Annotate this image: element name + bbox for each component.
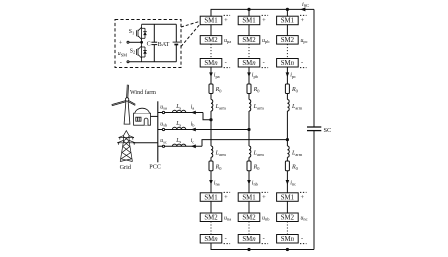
wire: SMn to R0 upper arm phase C <box>286 67 288 84</box>
wire: phase C AC line from PCC bus <box>158 140 288 147</box>
label + (upper arm voltage ref) phase C <box>301 17 305 24</box>
inductor L_arm lower arm phase C <box>287 146 289 157</box>
label - (upper arm voltage ref) phase A <box>225 60 227 67</box>
svg-text:Larm: Larm <box>253 104 265 110</box>
wire: R0 to L_arm upper arm phase A <box>210 94 212 100</box>
svg-text:SC: SC <box>324 127 332 134</box>
svg-text:una: una <box>224 215 231 221</box>
svg-text:-: - <box>225 60 227 67</box>
svg-text:+: + <box>301 17 305 24</box>
submodule SM1 upper arm phase A <box>200 16 222 25</box>
wire: SM internal top rail <box>142 23 177 25</box>
svg-text:Grid: Grid <box>120 164 132 171</box>
capacitor C in SM <box>151 42 157 44</box>
dotted tick at SMn bottom, phase C upper arm <box>300 67 307 69</box>
label + (upper arm voltage ref) phase B <box>262 17 266 24</box>
svg-text:usa: usa <box>160 104 167 110</box>
wire: + terminal to half-bridge midpoint <box>129 41 142 43</box>
svg-text:ipb: ipb <box>252 73 259 79</box>
label u_sb <box>160 121 168 127</box>
svg-text:Larm: Larm <box>291 151 303 157</box>
svg-text:R0: R0 <box>215 87 223 93</box>
label PCC <box>149 164 161 171</box>
label L_arm upper arm phase B <box>253 104 265 110</box>
label u_sa <box>160 104 167 110</box>
svg-text:-: - <box>301 236 303 243</box>
svg-text:SM2: SM2 <box>204 37 218 44</box>
label i_na <box>214 180 220 186</box>
submodule SMn upper arm phase C <box>277 59 299 68</box>
node: phase A AC connection point <box>209 118 212 121</box>
label R_0 upper arm phase A <box>215 87 223 93</box>
submodule SM2 upper arm phase B <box>238 36 260 45</box>
svg-text:SM1: SM1 <box>281 18 294 25</box>
wind turbine (wind farm icon) <box>112 85 136 125</box>
svg-text:-: - <box>225 236 227 243</box>
svg-text:R0: R0 <box>215 165 223 171</box>
svg-text:SMn: SMn <box>242 60 256 67</box>
dotted tick at SM1 top, phase C lower arm <box>300 191 307 193</box>
wire: upper arm to phase B AC node <box>248 111 250 146</box>
wire: top DC rail <box>211 9 314 16</box>
submodule SM1 lower arm phase A <box>200 193 222 202</box>
svg-text:upa: upa <box>224 38 231 44</box>
label i_c <box>191 138 195 144</box>
inductor L_arm upper arm phase A <box>211 100 213 112</box>
label u_pc arm voltage <box>301 38 308 44</box>
label - (upper arm voltage ref) phase B <box>263 60 265 67</box>
label Wind farm <box>130 89 156 96</box>
svg-text:inc: inc <box>290 180 296 186</box>
inductor L_arm lower arm phase A <box>211 146 213 157</box>
dashed box: submodule detail <box>115 20 181 68</box>
wire: bottom DC rail <box>211 243 314 249</box>
transistor S1 (upper IGBT with diode) <box>137 24 147 42</box>
dotted tick at SM1 top, phase A upper arm <box>224 14 231 16</box>
wire: grid to PCC bus <box>133 142 158 144</box>
svg-text:S2: S2 <box>130 48 135 54</box>
submodule SM2 upper arm phase C <box>277 36 299 45</box>
label L_arm upper arm phase A <box>215 104 227 110</box>
svg-text:usb: usb <box>160 121 168 127</box>
wire: phase A AC line from PCC bus <box>158 113 211 120</box>
current arrow i_b phase B <box>191 128 196 132</box>
label + (upper arm voltage ref) phase A <box>224 17 228 24</box>
battery BAT in SM <box>173 42 180 44</box>
terminal circle on phase B line at PCC <box>162 128 164 130</box>
label L_s phase B <box>175 121 181 127</box>
label i_a <box>191 104 195 110</box>
label + (lower arm voltage ref) phase B <box>262 194 266 201</box>
label R_0 lower arm phase B <box>253 165 261 171</box>
dashed leader line from box to SM1 (upper) <box>181 22 199 28</box>
current arrow i_nc (lower arm current) <box>286 180 290 185</box>
wire: R0 to L_arm upper arm phase C <box>286 94 288 100</box>
svg-text:+: + <box>224 194 228 201</box>
node: bottom rail phase-C leg junction <box>286 248 289 251</box>
current arrow i_na (lower arm current) <box>209 180 213 185</box>
svg-text:upb: upb <box>262 38 270 44</box>
wire: R0 to SM1 lower arm phase B <box>248 171 250 193</box>
label i_b <box>191 121 196 127</box>
wire: SM internal bottom rail (- terminal) <box>129 61 176 63</box>
svg-text:SM2: SM2 <box>204 215 218 222</box>
svg-text:unc: unc <box>301 215 308 221</box>
resistor R0 upper arm phase B <box>247 84 251 94</box>
node: top rail phase-B leg junction <box>247 8 250 11</box>
label L_s phase A <box>175 104 181 110</box>
svg-text:+: + <box>224 17 228 24</box>
label S_2 <box>130 48 135 54</box>
svg-text:uSM: uSM <box>118 51 127 57</box>
svg-text:Ls: Ls <box>175 104 181 110</box>
label - (lower arm voltage ref) phase B <box>263 236 265 243</box>
svg-text:SM1: SM1 <box>204 18 217 25</box>
transistor S2 (lower IGBT with diode) <box>137 42 147 62</box>
svg-text:upc: upc <box>301 38 308 44</box>
label + (lower arm voltage ref) phase A <box>224 194 228 201</box>
label u_nb arm voltage <box>262 215 270 221</box>
terminal circle on phase A line at PCC <box>162 111 164 113</box>
inductor L_arm upper arm phase B <box>249 100 251 112</box>
svg-text:R0: R0 <box>253 87 261 93</box>
wind farm generator building (dome) <box>134 108 151 125</box>
svg-text:SM1: SM1 <box>242 194 255 201</box>
dotted tick at SMn bottom, phase A upper arm <box>224 67 231 69</box>
current arrow i_c phase C <box>191 144 196 148</box>
label u_SM <box>118 51 127 57</box>
current arrow i_pb (upper arm current) <box>247 72 251 77</box>
svg-text:R0: R0 <box>291 165 299 171</box>
wire: R0 to SM1 lower arm phase C <box>286 171 288 193</box>
wire: R0 to L_arm upper arm phase B <box>248 94 250 100</box>
svg-text:SMn: SMn <box>204 236 218 243</box>
wire: upper arm to phase C AC node <box>286 111 288 146</box>
submodule SMn lower arm phase C <box>277 235 299 244</box>
node: bottom rail phase-B leg junction <box>247 248 250 251</box>
label L_arm lower arm phase A <box>215 151 227 157</box>
wire: SM1 to SM2 upper arm phase C <box>286 25 288 36</box>
svg-text:ipc: ipc <box>290 73 296 79</box>
submodule SMn upper arm phase B <box>238 59 260 68</box>
wire: DC-link right branch to supercapacitor <box>313 9 315 249</box>
terminal circle on phase C line at PCC <box>162 145 164 147</box>
svg-text:SM1: SM1 <box>242 18 255 25</box>
dotted wire: SM2 to SMn lower arm phase C <box>286 222 288 235</box>
inductor L_s phase B <box>172 127 185 129</box>
wire: SM1 to SM2 lower arm phase A <box>210 201 212 213</box>
svg-text:SMn: SMn <box>281 236 295 243</box>
svg-text:Larm: Larm <box>253 151 265 157</box>
svg-text:Larm: Larm <box>215 104 227 110</box>
svg-text:inb: inb <box>252 180 259 186</box>
submodule SM1 lower arm phase C <box>277 193 299 202</box>
wire: phase C upper leg from top rail to SM1 <box>286 9 288 16</box>
svg-text:+: + <box>119 40 123 47</box>
label i_pc <box>290 73 296 79</box>
label L_arm lower arm phase B <box>253 151 265 157</box>
submodule SMn lower arm phase A <box>200 235 222 244</box>
wire: SM1 to SM2 lower arm phase C <box>286 201 288 213</box>
submodule SMn upper arm phase A <box>200 59 222 68</box>
svg-text:Larm: Larm <box>291 104 303 110</box>
label i_nc <box>290 180 296 186</box>
svg-text:SM2: SM2 <box>242 215 256 222</box>
submodule SM1 lower arm phase B <box>238 193 260 202</box>
wire: SM1 to SM2 lower arm phase B <box>248 201 250 213</box>
wire: R0 to SM1 lower arm phase A <box>210 171 212 193</box>
capacitor SC (supercapacitor) <box>307 127 321 131</box>
label u_nc arm voltage <box>301 215 308 221</box>
svg-text:usc: usc <box>160 138 167 144</box>
wire: phase A upper leg from top rail to SM1 <box>210 9 212 16</box>
label SC <box>324 127 332 134</box>
wire: L_arm to R0 lower arm phase A <box>210 157 212 161</box>
label i_pa <box>214 73 220 79</box>
dotted tick at SM1 top, phase C upper arm <box>300 14 307 16</box>
label u_pa arm voltage <box>224 38 231 44</box>
node: top rail phase-C leg junction <box>286 8 289 11</box>
label L_arm upper arm phase C <box>291 104 303 110</box>
svg-text:-: - <box>263 236 265 243</box>
svg-text:-: - <box>263 60 265 67</box>
label L_s phase C <box>175 138 181 144</box>
svg-text:SM1: SM1 <box>204 194 217 201</box>
label BAT <box>158 41 170 48</box>
svg-text:C: C <box>147 41 151 48</box>
label L_arm lower arm phase C <box>291 151 303 157</box>
dotted tick at SMn bottom, phase B upper arm <box>262 67 269 69</box>
svg-text:ina: ina <box>214 180 220 186</box>
dotted wire: SM2 to SMn upper arm phase B <box>248 44 250 58</box>
svg-text:Ls: Ls <box>175 121 181 127</box>
svg-text:+: + <box>301 194 305 201</box>
terminal circle + of SM <box>127 41 129 43</box>
svg-text:SM2: SM2 <box>242 37 256 44</box>
svg-text:SM2: SM2 <box>281 215 295 222</box>
current arrow i_SC on top rail <box>300 7 305 11</box>
label u_sc <box>160 138 167 144</box>
wire: capacitor branch in SM <box>153 24 155 62</box>
dotted tick at SMn bottom, phase A lower arm <box>224 243 231 245</box>
label Grid <box>120 164 132 171</box>
terminal circle - of SM <box>127 61 129 63</box>
svg-text:SMn: SMn <box>204 60 218 67</box>
svg-text:ia: ia <box>191 104 195 110</box>
dotted tick at SMn bottom, phase B lower arm <box>262 243 269 245</box>
wire: phase B AC line from PCC bus <box>158 129 249 131</box>
current arrow i_a phase A <box>191 111 196 115</box>
svg-text:SM2: SM2 <box>281 37 295 44</box>
svg-text:+: + <box>262 17 266 24</box>
submodule SM2 lower arm phase A <box>200 213 222 222</box>
dotted tick at SMn bottom, phase C lower arm <box>300 243 307 245</box>
label i_SC <box>302 1 309 8</box>
current arrow i_nb (lower arm current) <box>247 180 251 185</box>
label S_1 <box>129 29 134 35</box>
svg-text:ic: ic <box>191 138 195 144</box>
label i_pb <box>252 73 259 79</box>
label + (SM terminal) <box>119 40 123 47</box>
submodule SMn lower arm phase B <box>238 235 260 244</box>
node: half-bridge midpoint <box>140 41 143 44</box>
resistor R0 upper arm phase C <box>285 84 289 94</box>
grid transmission tower icon <box>117 131 135 162</box>
node: phase B AC connection point <box>247 128 250 131</box>
svg-text:-: - <box>301 60 303 67</box>
node: phase C AC connection point <box>286 138 289 141</box>
svg-text:R0: R0 <box>291 87 299 93</box>
svg-text:Wind farm: Wind farm <box>130 89 156 96</box>
svg-text:Ls: Ls <box>175 138 181 144</box>
wire: battery branch in SM <box>175 24 177 62</box>
svg-text:BAT: BAT <box>158 41 170 48</box>
dotted wire: SM2 to SMn lower arm phase A <box>210 222 212 235</box>
wire: L_arm to R0 lower arm phase B <box>248 157 250 161</box>
svg-text:Larm: Larm <box>215 151 227 157</box>
submodule SM2 lower arm phase C <box>277 213 299 222</box>
svg-text:ipa: ipa <box>214 73 220 79</box>
svg-text:SMn: SMn <box>281 60 295 67</box>
label + (lower arm voltage ref) phase C <box>301 194 305 201</box>
label u_pb arm voltage <box>262 38 270 44</box>
wire: SM1 to SM2 upper arm phase A <box>210 25 212 36</box>
resistor R0 lower arm phase B <box>247 161 251 171</box>
wire: upper arm to phase A AC node <box>210 111 212 146</box>
svg-text:SMn: SMn <box>242 236 256 243</box>
dotted tick at SM1 top, phase B lower arm <box>262 191 269 193</box>
dotted wire: SM2 to SMn lower arm phase B <box>248 222 250 235</box>
svg-text:-: - <box>120 59 122 66</box>
submodule SM2 lower arm phase B <box>238 213 260 222</box>
wire: SM1 to SM2 upper arm phase B <box>248 25 250 36</box>
dotted wire: SM2 to SMn upper arm phase A <box>210 44 212 58</box>
label C <box>147 41 151 48</box>
inductor L_s phase C <box>172 144 185 146</box>
inductor L_arm upper arm phase C <box>287 100 289 112</box>
label R_0 upper arm phase B <box>253 87 261 93</box>
inductor L_arm lower arm phase B <box>249 146 251 157</box>
svg-text:PCC: PCC <box>149 164 161 171</box>
wire: L_arm to R0 lower arm phase C <box>286 157 288 161</box>
submodule SM2 upper arm phase A <box>200 36 222 45</box>
wire: phase B upper leg from top rail to SM1 <box>248 9 250 16</box>
dashed leader line from box to SM1 (lower) <box>181 25 199 47</box>
label - (upper arm voltage ref) phase C <box>301 60 303 67</box>
current arrow i_pc (upper arm current) <box>286 72 290 77</box>
svg-text:SM1: SM1 <box>281 194 294 201</box>
label u_na arm voltage <box>224 215 231 221</box>
inductor L_s phase A <box>172 110 185 112</box>
svg-text:S1: S1 <box>129 29 134 35</box>
svg-text:R0: R0 <box>253 165 261 171</box>
submodule SM1 upper arm phase C <box>277 16 299 25</box>
label R_0 upper arm phase C <box>291 87 299 93</box>
dotted tick at SM1 top, phase A lower arm <box>224 191 231 193</box>
label R_0 lower arm phase C <box>291 165 299 171</box>
wire: SMn to R0 upper arm phase A <box>210 67 212 84</box>
resistor R0 lower arm phase A <box>209 161 213 171</box>
svg-text:+: + <box>262 194 266 201</box>
label - (SM terminal) <box>120 59 122 66</box>
submodule SM1 upper arm phase B <box>238 16 260 25</box>
wire: wind farm to PCC bus <box>151 115 158 117</box>
svg-text:unb: unb <box>262 215 270 221</box>
dotted wire: SM2 to SMn upper arm phase C <box>286 44 288 58</box>
current arrow i_pa (upper arm current) <box>209 72 213 77</box>
node/bus: PCC bus bar <box>157 101 159 162</box>
label i_nb <box>252 180 259 186</box>
dotted tick at SM1 top, phase B upper arm <box>262 14 269 16</box>
resistor R0 lower arm phase C <box>285 161 289 171</box>
wire: SMn to R0 upper arm phase B <box>248 67 250 84</box>
label - (lower arm voltage ref) phase A <box>225 236 227 243</box>
resistor R0 upper arm phase A <box>209 84 213 94</box>
label R_0 lower arm phase A <box>215 165 223 171</box>
label - (lower arm voltage ref) phase C <box>301 236 303 243</box>
